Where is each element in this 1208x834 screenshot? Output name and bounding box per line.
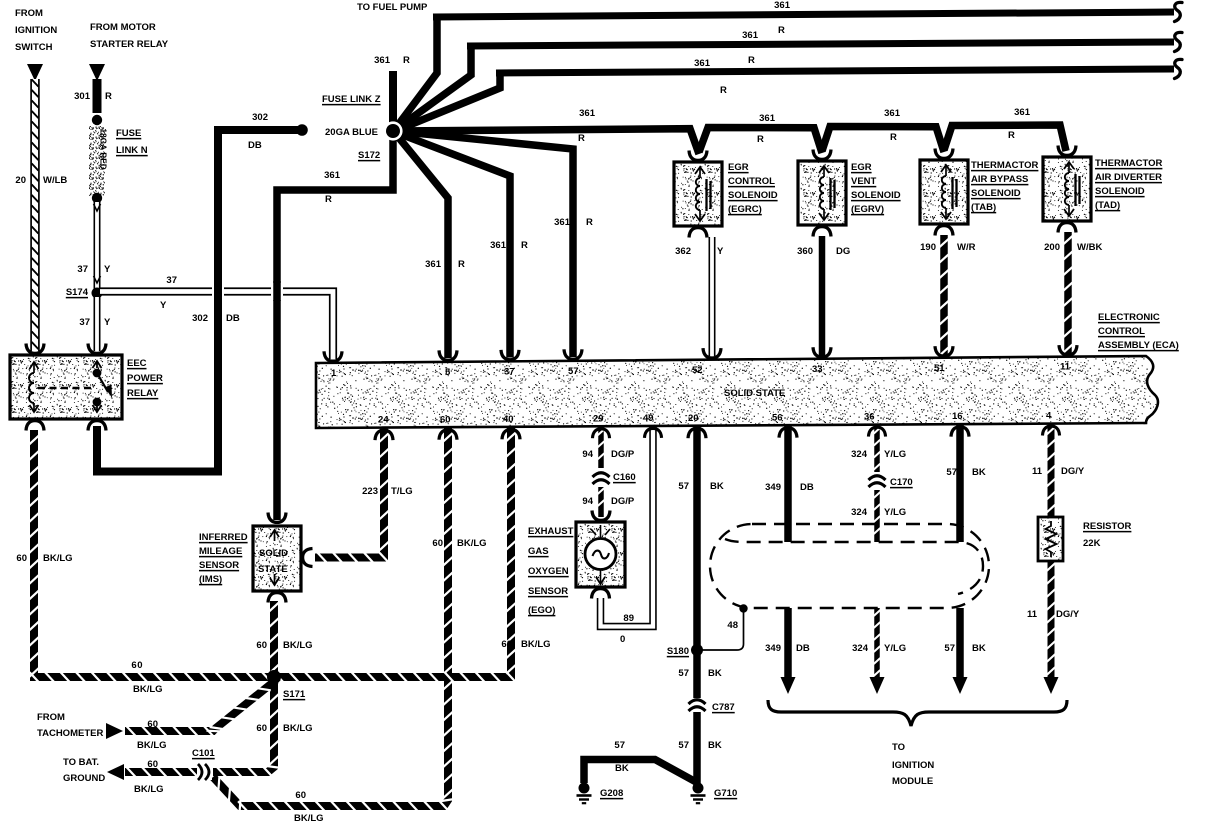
svg-text:R: R [1008, 130, 1015, 141]
svg-text:361: 361 [1014, 107, 1031, 118]
svg-text:ASSEMBLY (ECA): ASSEMBLY (ECA) [1098, 340, 1179, 351]
svg-text:SOLENOID: SOLENOID [971, 188, 1021, 199]
svg-text:SWITCH: SWITCH [15, 42, 53, 53]
svg-text:(EGO): (EGO) [528, 605, 555, 616]
svg-text:BK/LG: BK/LG [283, 723, 313, 734]
svg-text:RESISTOR: RESISTOR [1083, 521, 1132, 532]
svg-text:R: R [890, 132, 897, 143]
svg-text:51: 51 [934, 363, 945, 374]
svg-text:BK/LG: BK/LG [133, 684, 163, 695]
svg-text:DG/Y: DG/Y [1056, 609, 1080, 620]
svg-text:48: 48 [727, 620, 738, 631]
svg-text:TO FUEL PUMP: TO FUEL PUMP [357, 2, 428, 13]
svg-text:RELAY: RELAY [127, 388, 159, 399]
svg-text:SOLID: SOLID [259, 548, 288, 559]
svg-text:BK/LG: BK/LG [283, 640, 313, 651]
svg-text:MODULE: MODULE [892, 776, 933, 787]
svg-text:57: 57 [678, 481, 689, 492]
svg-text:37: 37 [166, 275, 177, 286]
svg-text:Y/LG: Y/LG [884, 643, 906, 654]
svg-text:324: 324 [851, 507, 868, 518]
svg-text:302: 302 [252, 112, 268, 123]
svg-text:W/R: W/R [957, 242, 976, 253]
svg-text:4: 4 [1046, 411, 1052, 422]
svg-text:BK/LG: BK/LG [43, 553, 73, 564]
svg-text:DB: DB [796, 643, 810, 654]
svg-text:Y: Y [104, 264, 111, 275]
svg-text:57: 57 [944, 643, 955, 654]
svg-text:57: 57 [568, 366, 579, 377]
svg-text:C787: C787 [712, 702, 735, 713]
svg-text:20: 20 [15, 175, 26, 186]
svg-text:60: 60 [147, 719, 158, 730]
svg-text:C101: C101 [192, 748, 215, 759]
svg-text:TACHOMETER: TACHOMETER [37, 728, 103, 739]
svg-text:190: 190 [920, 242, 936, 253]
svg-text:349: 349 [765, 643, 781, 654]
svg-text:SOLENOID: SOLENOID [851, 190, 901, 201]
svg-text:37: 37 [77, 264, 88, 275]
svg-text:R: R [105, 91, 112, 102]
svg-text:22K: 22K [1083, 538, 1101, 549]
svg-text:5: 5 [445, 367, 451, 378]
svg-text:1: 1 [331, 368, 337, 379]
svg-text:BK: BK [615, 763, 629, 774]
svg-text:R: R [586, 217, 593, 228]
svg-text:GAS: GAS [528, 546, 549, 557]
svg-text:361: 361 [324, 170, 341, 181]
svg-text:FROM: FROM [37, 712, 65, 723]
svg-text:FROM MOTOR: FROM MOTOR [90, 22, 156, 33]
svg-text:BK/LG: BK/LG [521, 639, 551, 650]
svg-text:BK: BK [708, 740, 722, 751]
svg-text:361: 361 [694, 58, 711, 69]
svg-text:36: 36 [864, 412, 875, 423]
svg-text:16: 16 [952, 411, 963, 422]
svg-text:C160: C160 [613, 472, 636, 483]
svg-text:24: 24 [378, 415, 389, 426]
svg-text:60: 60 [440, 414, 451, 425]
svg-text:BK: BK [710, 481, 724, 492]
svg-text:(TAD): (TAD) [1095, 200, 1120, 211]
svg-text:R: R [778, 25, 785, 36]
svg-text:R: R [757, 134, 764, 145]
svg-text:CONTROL: CONTROL [728, 176, 775, 187]
svg-text:DB: DB [248, 140, 262, 151]
svg-text:60: 60 [295, 790, 306, 801]
svg-text:361: 361 [759, 113, 776, 124]
svg-text:37: 37 [79, 317, 90, 328]
svg-text:(EGRV): (EGRV) [851, 204, 884, 215]
svg-text:200: 200 [1044, 242, 1060, 253]
svg-text:56: 56 [772, 412, 783, 423]
svg-text:R: R [521, 240, 528, 251]
svg-text:S174: S174 [66, 287, 89, 298]
svg-text:SENSOR: SENSOR [199, 560, 239, 571]
svg-text:DG/P: DG/P [611, 449, 635, 460]
svg-text:EGR: EGR [851, 162, 872, 173]
svg-text:SOLENOID: SOLENOID [1095, 186, 1145, 197]
svg-text:361: 361 [884, 108, 901, 119]
svg-text:STARTER RELAY: STARTER RELAY [90, 39, 169, 50]
svg-text:R: R [458, 259, 465, 270]
svg-text:60: 60 [16, 553, 27, 564]
svg-text:DB: DB [226, 313, 240, 324]
svg-text:TO: TO [892, 742, 905, 753]
svg-text:BK/LG: BK/LG [137, 740, 167, 751]
svg-text:DB: DB [800, 482, 814, 493]
svg-text:361: 361 [579, 108, 596, 119]
svg-text:SENSOR: SENSOR [528, 586, 568, 597]
svg-text:60: 60 [256, 640, 267, 651]
svg-text:324: 324 [851, 449, 868, 460]
svg-text:361: 361 [554, 217, 571, 228]
svg-text:DG/Y: DG/Y [1061, 466, 1085, 477]
svg-text:VENT: VENT [851, 176, 877, 187]
svg-text:BK: BK [708, 668, 722, 679]
svg-text:52: 52 [692, 365, 703, 376]
svg-text:40: 40 [503, 414, 514, 425]
svg-text:Y: Y [160, 300, 167, 311]
svg-text:AIR DIVERTER: AIR DIVERTER [1095, 172, 1162, 183]
svg-text:(TAB): (TAB) [971, 202, 996, 213]
svg-text:60: 60 [131, 660, 143, 671]
svg-text:R: R [748, 55, 755, 66]
svg-text:EXHAUST: EXHAUST [528, 526, 574, 537]
svg-text:Y/LG: Y/LG [884, 507, 906, 518]
svg-text:(EGRC): (EGRC) [728, 204, 762, 215]
svg-text:CONTROL: CONTROL [1098, 326, 1145, 337]
svg-text:37: 37 [504, 366, 515, 377]
svg-text:R: R [578, 133, 585, 144]
svg-text:302: 302 [192, 313, 208, 324]
svg-text:MILEAGE: MILEAGE [199, 546, 242, 557]
svg-text:360: 360 [797, 246, 813, 257]
svg-text:GROUND: GROUND [63, 773, 105, 784]
svg-text:11: 11 [1032, 466, 1043, 477]
svg-text:11: 11 [1060, 362, 1071, 373]
svg-text:349: 349 [765, 482, 781, 493]
svg-text:BK/LG: BK/LG [457, 538, 487, 549]
svg-text:57: 57 [946, 467, 957, 478]
svg-text:IGNITION: IGNITION [15, 25, 57, 36]
svg-text:60: 60 [501, 639, 512, 650]
svg-text:18GA RED: 18GA RED [99, 129, 108, 170]
svg-text:DG/P: DG/P [611, 496, 635, 507]
svg-text:BK: BK [972, 643, 986, 654]
svg-text:SOLID STATE: SOLID STATE [724, 388, 785, 399]
svg-text:BK/LG: BK/LG [294, 813, 324, 824]
svg-text:60: 60 [256, 723, 267, 734]
svg-text:G710: G710 [714, 788, 737, 799]
svg-text:S172: S172 [358, 150, 380, 161]
svg-text:Y: Y [104, 317, 111, 328]
svg-text:94: 94 [582, 449, 593, 460]
svg-text:STATE: STATE [258, 564, 288, 575]
svg-text:361: 361 [374, 55, 391, 66]
svg-text:TO BAT.: TO BAT. [63, 757, 99, 768]
svg-text:R: R [325, 194, 332, 205]
svg-text:20: 20 [688, 413, 699, 424]
svg-text:SOLENOID: SOLENOID [728, 190, 778, 201]
svg-text:361: 361 [490, 240, 507, 251]
svg-text:G208: G208 [600, 788, 623, 799]
svg-text:R: R [403, 55, 410, 66]
svg-text:IGNITION: IGNITION [892, 760, 934, 771]
svg-text:301: 301 [74, 91, 91, 102]
svg-text:57: 57 [678, 668, 689, 679]
svg-text:DG: DG [836, 246, 850, 257]
svg-text:THERMACTOR: THERMACTOR [971, 160, 1039, 171]
svg-text:W/LB: W/LB [43, 175, 67, 186]
svg-text:324: 324 [852, 643, 869, 654]
svg-text:POWER: POWER [127, 373, 163, 384]
svg-text:W/BK: W/BK [1077, 242, 1102, 253]
svg-text:ELECTRONIC: ELECTRONIC [1098, 312, 1160, 323]
svg-text:361: 361 [742, 30, 759, 41]
svg-text:11: 11 [1027, 609, 1038, 620]
svg-text:57: 57 [678, 740, 689, 751]
svg-text:94: 94 [582, 496, 593, 507]
svg-text:LINK N: LINK N [116, 145, 148, 156]
svg-text:33: 33 [812, 364, 823, 375]
svg-text:0: 0 [620, 634, 625, 645]
svg-text:Y/LG: Y/LG [884, 449, 906, 460]
svg-text:(IMS): (IMS) [199, 574, 222, 585]
svg-text:S180: S180 [667, 646, 689, 657]
svg-text:BK/LG: BK/LG [134, 784, 164, 795]
svg-text:57: 57 [614, 740, 625, 751]
svg-text:49: 49 [643, 413, 654, 424]
svg-text:R: R [720, 85, 727, 96]
svg-text:FROM: FROM [15, 8, 43, 19]
svg-text:S171: S171 [283, 689, 306, 700]
svg-text:29: 29 [593, 413, 604, 424]
svg-text:361: 361 [425, 259, 442, 270]
svg-text:EEC: EEC [127, 358, 147, 369]
svg-text:362: 362 [675, 246, 691, 257]
svg-text:T/LG: T/LG [391, 486, 413, 497]
svg-text:EGR: EGR [728, 162, 749, 173]
svg-text:89: 89 [623, 613, 634, 624]
svg-text:AIR BYPASS: AIR BYPASS [971, 174, 1028, 185]
svg-text:Y: Y [717, 246, 724, 257]
svg-text:OXYGEN: OXYGEN [528, 566, 569, 577]
svg-text:FUSE LINK Z: FUSE LINK Z [322, 94, 381, 105]
svg-text:THERMACTOR: THERMACTOR [1095, 158, 1163, 169]
svg-text:INFERRED: INFERRED [199, 532, 248, 543]
svg-text:60: 60 [147, 759, 158, 770]
svg-text:C170: C170 [890, 477, 913, 488]
svg-text:FUSE: FUSE [116, 128, 141, 139]
svg-text:361: 361 [774, 0, 791, 11]
svg-text:60: 60 [432, 538, 443, 549]
svg-text:BK: BK [972, 467, 986, 478]
svg-text:20GA BLUE: 20GA BLUE [325, 127, 378, 138]
svg-text:223: 223 [362, 486, 378, 497]
